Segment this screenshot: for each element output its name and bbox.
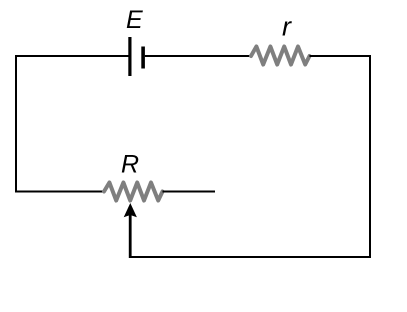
resistor r zigzag (internal resistance): [251, 47, 310, 65]
wiper arrow head pointing at rheostat R: [124, 203, 137, 217]
battery E long plate (positive): [128, 37, 131, 76]
wire: left vertical segment: [15, 55, 17, 193]
rheostat R zigzag: [104, 183, 163, 201]
wire: top-right horizontal segment from resistor r to right corner: [310, 55, 372, 57]
wire: right vertical segment: [369, 55, 371, 258]
wire: middle-left horizontal segment to rheostat R: [15, 191, 104, 193]
wire: top segment from battery to resistor r: [145, 55, 251, 57]
wire: bottom horizontal segment: [129, 256, 371, 258]
svg-text:R: R: [121, 151, 139, 179]
svg-text:r: r: [282, 12, 292, 42]
wire: middle-right stub from rheostat R: [163, 191, 216, 193]
wire: top-left horizontal segment from left corner to battery: [15, 55, 129, 57]
wiper arrow shaft (vertical wire from bottom wire up to rheostat): [129, 212, 132, 258]
battery E short plate (negative): [141, 47, 145, 69]
svg-text:E: E: [126, 6, 143, 34]
